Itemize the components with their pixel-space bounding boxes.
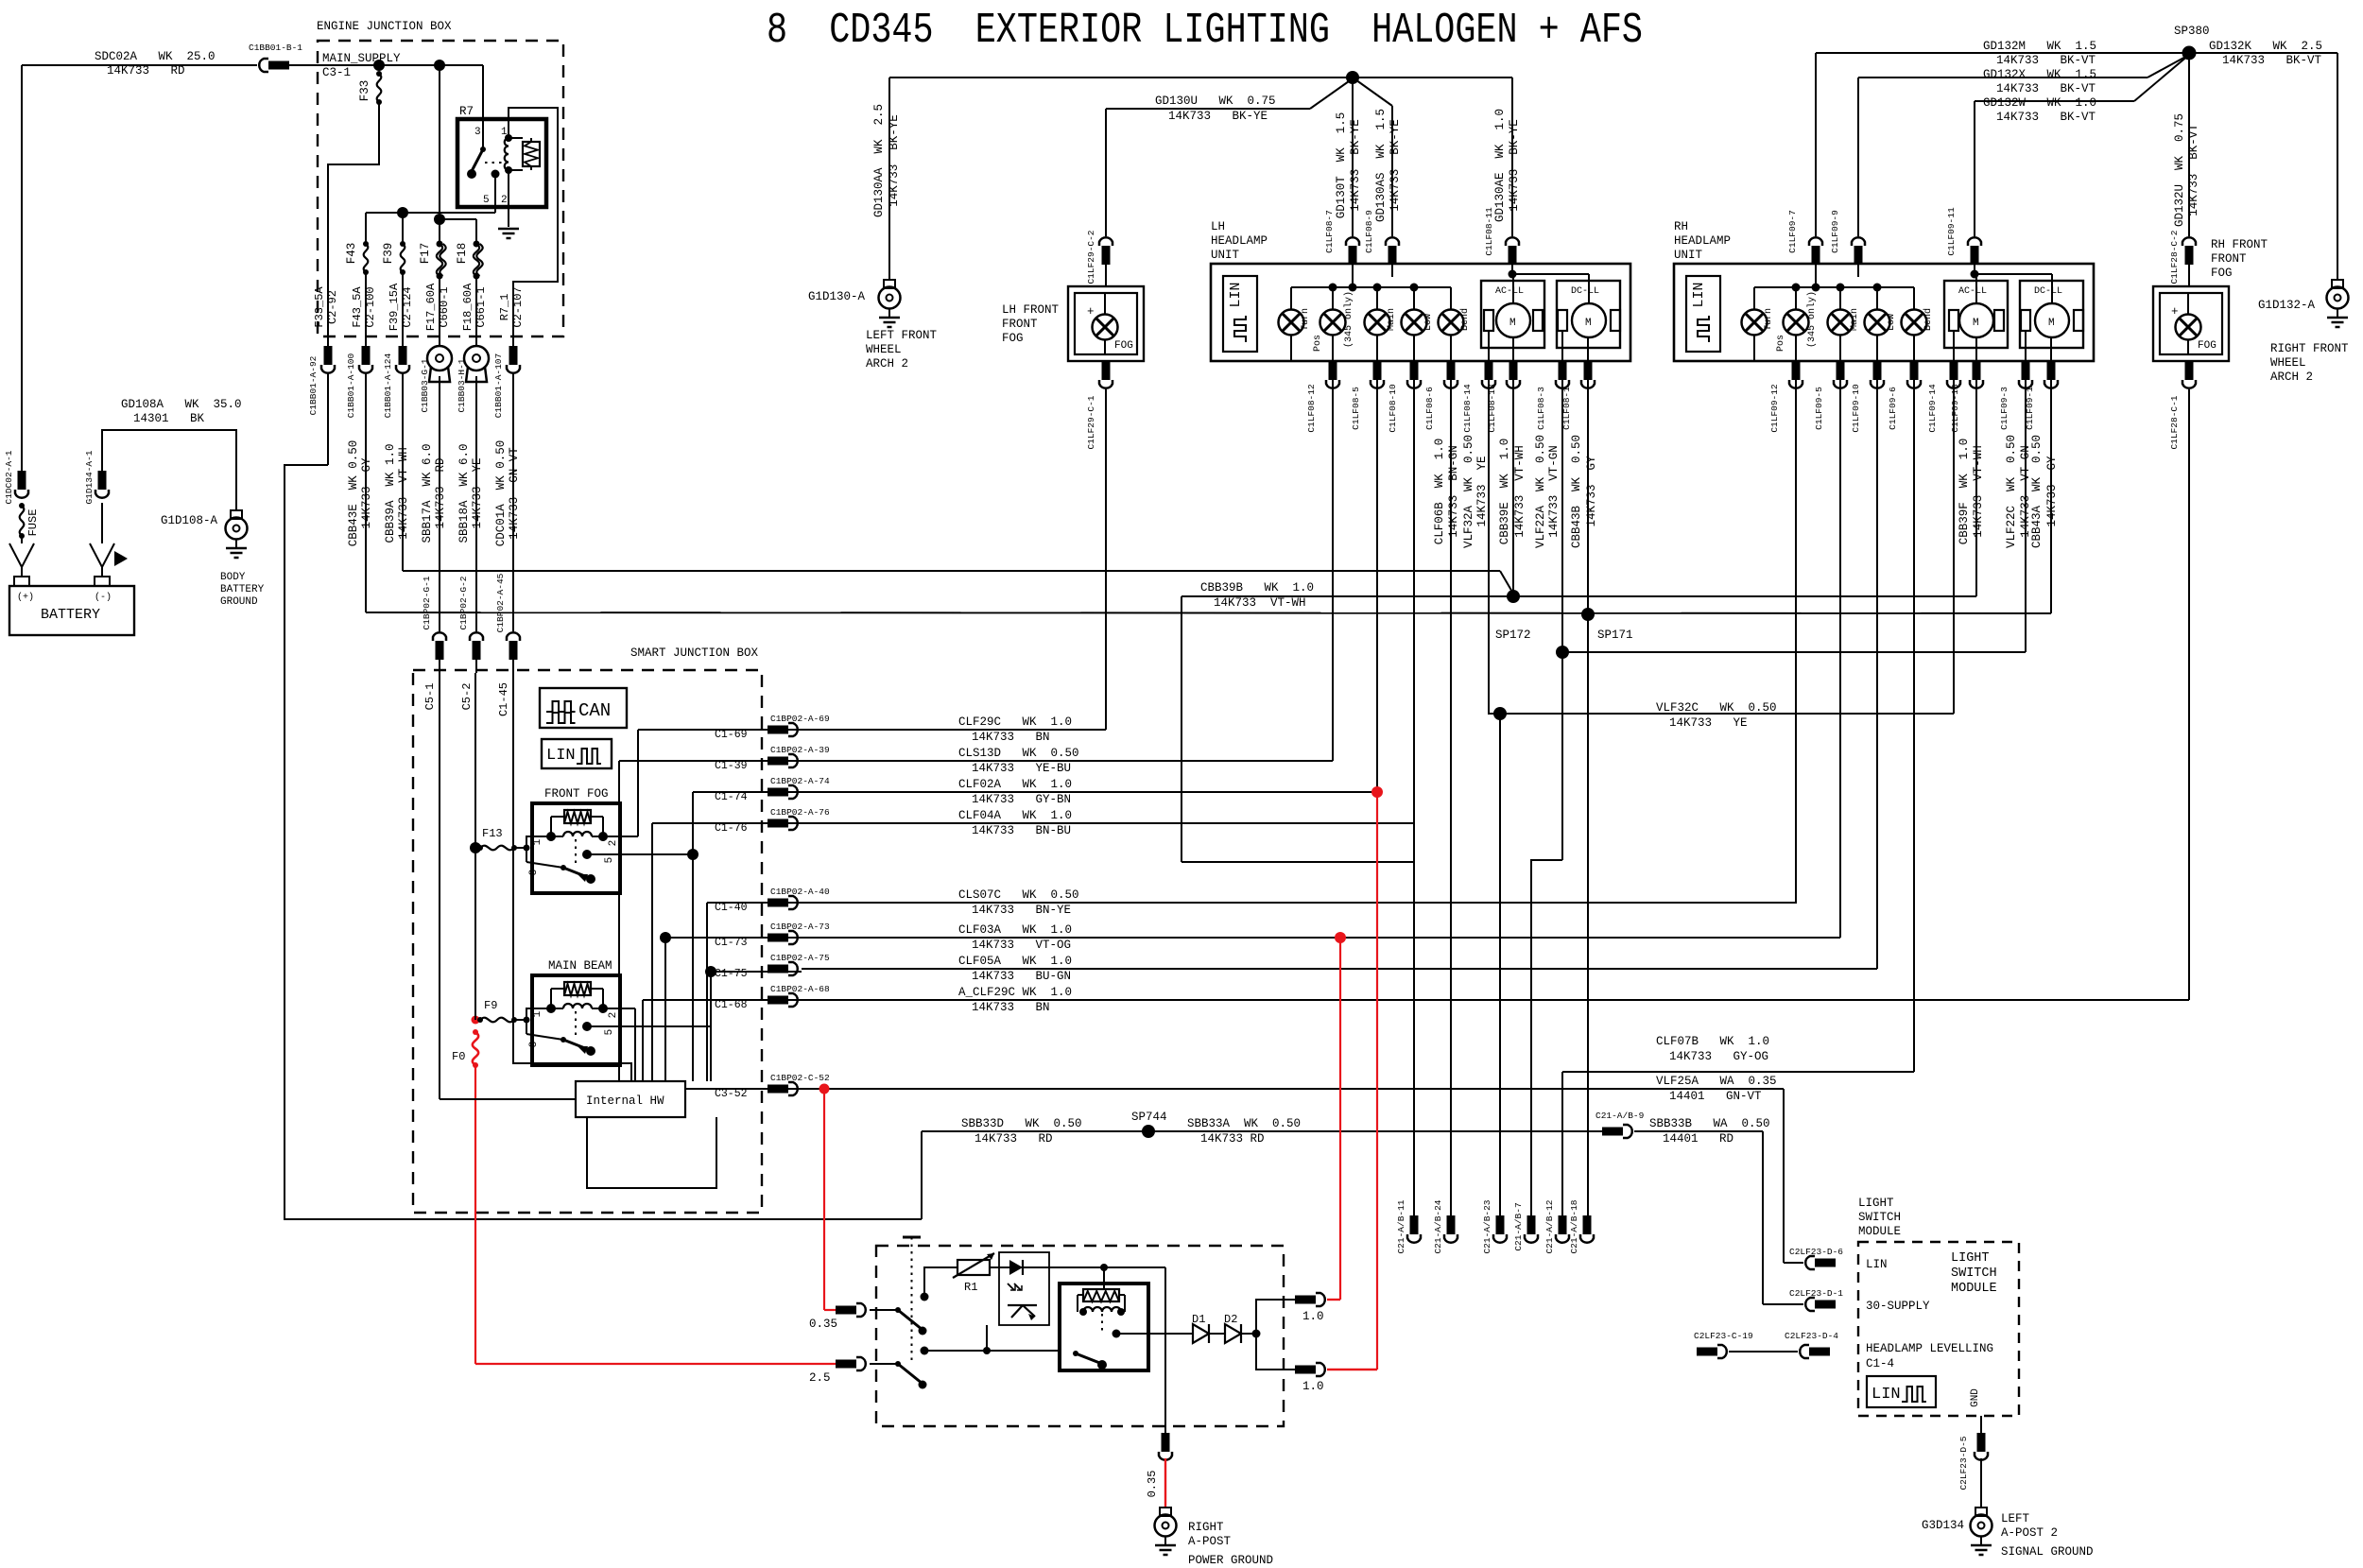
- svg-text:C21-A/B-9: C21-A/B-9: [1595, 1111, 1645, 1121]
- svg-text:RH FRONT: RH FRONT: [2211, 238, 2268, 251]
- svg-text:C2LF23-D-1: C2LF23-D-1: [1789, 1288, 1843, 1299]
- svg-text:C1LF09-3: C1LF09-3: [1999, 387, 2009, 430]
- svg-text:M: M: [2048, 318, 2055, 329]
- svg-text:C1LF09-1: C1LF09-1: [2025, 387, 2035, 430]
- svg-text:14K733 BN: 14K733 BN: [972, 1001, 1050, 1014]
- svg-text:GD132X WK 1.5: GD132X WK 1.5: [1983, 68, 2096, 81]
- svg-text:DC-LL: DC-LL: [2034, 286, 2062, 297]
- svg-text:LIGHT: LIGHT: [1858, 1197, 1894, 1210]
- svg-text:14K733 BN-BU: 14K733 BN-BU: [972, 824, 1071, 837]
- svg-text:F17: F17: [419, 243, 432, 265]
- svg-text:C1BP02-A-45: C1BP02-A-45: [495, 573, 506, 632]
- svg-text:BODY: BODY: [220, 572, 246, 583]
- svg-text:14K733 RD: 14K733 RD: [107, 64, 185, 78]
- svg-text:M: M: [1585, 318, 1592, 329]
- svg-text:VLF22A WK 0.50: VLF22A WK 0.50: [1534, 435, 1547, 548]
- svg-text:1.0: 1.0: [1302, 1380, 1324, 1393]
- svg-text:(-): (-): [95, 592, 112, 603]
- svg-text:SBB18A WK 6.0: SBB18A WK 6.0: [457, 443, 471, 543]
- svg-text:RH: RH: [1674, 220, 1688, 233]
- svg-text:Low: Low: [1887, 314, 1897, 331]
- svg-text:14K733 BK-VT: 14K733 BK-VT: [1996, 54, 2096, 67]
- svg-text:F9: F9: [484, 999, 497, 1012]
- svg-text:AC-LL: AC-LL: [1958, 286, 1987, 297]
- svg-text:LIGHT: LIGHT: [1951, 1251, 1990, 1266]
- svg-text:SWITCH: SWITCH: [1858, 1211, 1901, 1224]
- svg-text:C661-1: C661-1: [474, 286, 488, 327]
- svg-text:C2LF23-D-6: C2LF23-D-6: [1789, 1247, 1843, 1257]
- svg-text:SDC02A WK 25.0: SDC02A WK 25.0: [95, 50, 216, 63]
- svg-text:C660-1: C660-1: [438, 286, 451, 327]
- svg-text:Main: Main: [1386, 308, 1397, 331]
- svg-text:2: 2: [608, 1012, 619, 1019]
- svg-text:C1LF28-C-1: C1LF28-C-1: [2169, 395, 2180, 449]
- svg-text:C1LF08-1: C1LF08-1: [1561, 387, 1572, 430]
- svg-text:14K733 YE: 14K733 YE: [1669, 716, 1748, 730]
- svg-text:C1-40: C1-40: [715, 902, 748, 914]
- svg-text:2.5: 2.5: [809, 1371, 831, 1385]
- svg-text:G1D130-A: G1D130-A: [808, 290, 866, 303]
- svg-text:14K733 VT-WH: 14K733 VT-WH: [1214, 596, 1306, 610]
- svg-text:Bend: Bend: [1459, 308, 1471, 331]
- svg-text:WHEEL: WHEEL: [2270, 356, 2306, 370]
- svg-text:C1-69: C1-69: [715, 729, 748, 741]
- svg-text:C2-100: C2-100: [364, 286, 377, 327]
- svg-text:C1DC02-A-1: C1DC02-A-1: [4, 450, 14, 504]
- svg-text:C1BP02-A-73: C1BP02-A-73: [770, 922, 830, 932]
- svg-text:HEADLAMP: HEADLAMP: [1211, 234, 1268, 248]
- svg-text:A-POST 2: A-POST 2: [2001, 1526, 2058, 1540]
- svg-text:C1BP02-A-76: C1BP02-A-76: [770, 807, 830, 818]
- svg-text:ARCH 2: ARCH 2: [2270, 370, 2313, 384]
- svg-text:Turn: Turn: [1301, 308, 1311, 331]
- svg-text:CLF05A WK 1.0: CLF05A WK 1.0: [958, 955, 1072, 968]
- svg-text:C5-2: C5-2: [460, 683, 474, 711]
- svg-text:C1BB03-H-1: C1BB03-H-1: [457, 358, 467, 412]
- svg-text:(+): (+): [17, 592, 34, 603]
- svg-text:C1LF29-C-2: C1LF29-C-2: [1086, 230, 1096, 284]
- svg-text:M: M: [1973, 318, 1979, 329]
- svg-text:Turn: Turn: [1764, 308, 1774, 331]
- svg-text:G3D134: G3D134: [1922, 1519, 1964, 1532]
- svg-text:14K733 GY: 14K733 GY: [2045, 456, 2059, 527]
- svg-text:C1LF08-14: C1LF08-14: [1462, 384, 1473, 433]
- svg-text:CBB39E WK 1.0: CBB39E WK 1.0: [1498, 439, 1511, 545]
- svg-text:C1BP02-A-40: C1BP02-A-40: [770, 887, 830, 897]
- svg-text:GROUND: GROUND: [220, 596, 258, 608]
- svg-text:LIN: LIN: [546, 747, 576, 765]
- svg-text:MAIN_SUPPLY: MAIN_SUPPLY: [322, 52, 401, 65]
- svg-text:5: 5: [604, 1029, 615, 1036]
- svg-text:CAN: CAN: [578, 700, 611, 721]
- svg-text:C1BP02-G-2: C1BP02-G-2: [458, 576, 469, 629]
- svg-text:RIGHT FRONT: RIGHT FRONT: [2270, 342, 2349, 355]
- svg-text:BATTERY: BATTERY: [41, 607, 100, 623]
- svg-text:CBB43B WK 0.50: CBB43B WK 0.50: [1570, 435, 1583, 548]
- svg-text:1.0: 1.0: [1302, 1310, 1324, 1323]
- svg-text:SP171: SP171: [1597, 629, 1633, 642]
- svg-text:LH: LH: [1211, 220, 1225, 233]
- svg-text:SWITCH: SWITCH: [1951, 1266, 1997, 1281]
- svg-text:GD130AE WK 1.0: GD130AE WK 1.0: [1493, 109, 1507, 222]
- svg-text:14K733 BK-YE: 14K733 BK-YE: [1508, 119, 1521, 212]
- svg-text:CDC01A WK 0.50: CDC01A WK 0.50: [494, 440, 508, 547]
- svg-text:UNIT: UNIT: [1211, 249, 1240, 262]
- svg-text:14301 BK: 14301 BK: [133, 412, 205, 425]
- svg-text:WHEEL: WHEEL: [866, 343, 902, 356]
- svg-text:C1LF08-3: C1LF08-3: [1536, 387, 1546, 430]
- svg-text:LEFT FRONT: LEFT FRONT: [866, 329, 938, 342]
- svg-text:F43: F43: [345, 243, 358, 265]
- svg-text:14K733 VT-GN: 14K733 VT-GN: [1547, 445, 1561, 538]
- svg-text:C21-A/B-12: C21-A/B-12: [1544, 1199, 1555, 1253]
- svg-text:C1LF09-5: C1LF09-5: [1814, 387, 1824, 430]
- svg-text:G1D134-A-1: G1D134-A-1: [84, 450, 95, 504]
- svg-text:F17_60A: F17_60A: [424, 283, 438, 331]
- svg-text:C1-4: C1-4: [1866, 1357, 1894, 1370]
- svg-text:C1LF29-C-1: C1LF29-C-1: [1086, 395, 1096, 449]
- svg-text:C2-124: C2-124: [401, 286, 414, 327]
- svg-text:+: +: [2171, 305, 2179, 319]
- svg-text:14K733 BK-VT: 14K733 BK-VT: [2222, 54, 2322, 67]
- svg-text:FUSE: FUSE: [26, 509, 40, 537]
- svg-text:2: 2: [501, 195, 508, 206]
- svg-text:C1BB01-A-107: C1BB01-A-107: [493, 353, 504, 418]
- svg-text:MAIN BEAM: MAIN BEAM: [548, 959, 612, 973]
- svg-text:C21-A/B-24: C21-A/B-24: [1433, 1199, 1443, 1253]
- svg-text:C1BP02-A-75: C1BP02-A-75: [770, 953, 830, 963]
- svg-text:14K733 GY: 14K733 GY: [1585, 456, 1598, 527]
- svg-text:F18: F18: [456, 243, 469, 265]
- svg-text:14K733 GY-OG: 14K733 GY-OG: [1669, 1050, 1768, 1063]
- svg-text:C1LF09-12: C1LF09-12: [1769, 384, 1780, 433]
- svg-text:14K733 GY-BN: 14K733 GY-BN: [972, 793, 1071, 806]
- svg-text:14K733 BN-GN: 14K733 BN-GN: [1447, 445, 1460, 538]
- svg-text:C1LF08-11: C1LF08-11: [1484, 207, 1494, 256]
- svg-text:BATTERY: BATTERY: [220, 584, 265, 595]
- svg-text:VLF32A WK 0.50: VLF32A WK 0.50: [1462, 435, 1475, 548]
- svg-text:C1LF08-6: C1LF08-6: [1424, 387, 1435, 430]
- svg-text:C5-1: C5-1: [423, 683, 437, 711]
- svg-text:14K733 BN: 14K733 BN: [972, 731, 1050, 744]
- svg-text:SMART JUNCTION BOX: SMART JUNCTION BOX: [630, 646, 759, 660]
- svg-text:14K733 BU-GN: 14K733 BU-GN: [972, 970, 1071, 983]
- svg-text:VLF32C WK 0.50: VLF32C WK 0.50: [1656, 701, 1777, 715]
- svg-text:C1BP02-C-52: C1BP02-C-52: [770, 1073, 830, 1083]
- svg-text:HEADLAMP LEVELLING: HEADLAMP LEVELLING: [1866, 1342, 1993, 1355]
- svg-text:CLF03A WK 1.0: CLF03A WK 1.0: [958, 923, 1072, 937]
- svg-text:C1BB01-A-124: C1BB01-A-124: [383, 353, 393, 419]
- svg-text:C1BB01-A-100: C1BB01-A-100: [346, 353, 356, 419]
- svg-text:GD130AS WK 1.5: GD130AS WK 1.5: [1374, 109, 1388, 222]
- svg-text:C21-A/B-23: C21-A/B-23: [1482, 1199, 1492, 1253]
- svg-text:LIN: LIN: [1228, 282, 1244, 307]
- svg-text:SBB17A WK 6.0: SBB17A WK 6.0: [421, 443, 434, 543]
- svg-text:C1BB01-A-92: C1BB01-A-92: [308, 355, 319, 415]
- svg-text:M: M: [1509, 318, 1516, 329]
- svg-text:14K733 BK-VT: 14K733 BK-VT: [1996, 111, 2096, 124]
- svg-text:FOG: FOG: [1114, 340, 1133, 352]
- svg-text:UNIT: UNIT: [1674, 249, 1703, 262]
- svg-text:3: 3: [528, 1042, 540, 1048]
- svg-text:GD130T WK 1.5: GD130T WK 1.5: [1335, 112, 1348, 219]
- svg-text:C1BP02-A-68: C1BP02-A-68: [770, 984, 830, 994]
- svg-text:SP380: SP380: [2174, 25, 2210, 38]
- svg-text:14K733 BK-YE: 14K733 BK-YE: [888, 114, 901, 207]
- svg-text:14401 RD: 14401 RD: [1663, 1132, 1733, 1146]
- svg-text:C1-39: C1-39: [715, 760, 748, 772]
- svg-text:MODULE: MODULE: [1951, 1282, 1997, 1296]
- svg-text:14K733 YE-BU: 14K733 YE-BU: [972, 762, 1071, 775]
- svg-text:F33_5A: F33_5A: [313, 286, 326, 328]
- svg-text:C1BB01-B-1: C1BB01-B-1: [249, 43, 302, 53]
- svg-text:R1: R1: [964, 1281, 977, 1294]
- svg-text:CLF29C WK 1.0: CLF29C WK 1.0: [958, 715, 1072, 729]
- svg-text:14K733 BK-YE: 14K733 BK-YE: [1388, 119, 1402, 212]
- svg-text:14K733 BK-VT: 14K733 BK-VT: [2187, 124, 2200, 216]
- svg-text:C1LF09-10: C1LF09-10: [1851, 384, 1861, 433]
- svg-text:C1BP02-G-1: C1BP02-G-1: [422, 576, 432, 629]
- svg-text:SBB33B WA 0.50: SBB33B WA 0.50: [1649, 1117, 1770, 1130]
- svg-text:14K733 VT-OG: 14K733 VT-OG: [972, 939, 1071, 952]
- svg-text:F39_15A: F39_15A: [388, 283, 401, 331]
- svg-text:FRONT: FRONT: [2211, 252, 2247, 266]
- svg-text:C2LF23-D-4: C2LF23-D-4: [1785, 1331, 1838, 1341]
- svg-text:LH FRONT: LH FRONT: [1002, 303, 1060, 317]
- svg-text:SP744: SP744: [1131, 1111, 1167, 1124]
- svg-text:GD130U WK 0.75: GD130U WK 0.75: [1155, 95, 1276, 108]
- svg-text:CBB39F WK 1.0: CBB39F WK 1.0: [1958, 439, 1971, 545]
- svg-text:Pos: Pos: [1776, 335, 1786, 352]
- svg-text:C1LF09-7: C1LF09-7: [1787, 210, 1798, 253]
- svg-text:C1-76: C1-76: [715, 822, 748, 835]
- svg-text:C21-A/B-18: C21-A/B-18: [1569, 1199, 1579, 1253]
- svg-text:GD130AA WK 2.5: GD130AA WK 2.5: [872, 104, 886, 217]
- svg-text:8 CD345 EXTERIOR LIGHTING H: 8 CD345 EXTERIOR LIGHTING HALOGEN + AFS: [767, 7, 1643, 55]
- svg-text:GD132W WK 1.0: GD132W WK 1.0: [1983, 96, 2096, 110]
- svg-text:5: 5: [604, 857, 615, 864]
- svg-text:C1BP02-A-69: C1BP02-A-69: [770, 714, 830, 724]
- svg-text:14K733 BK-YE: 14K733 BK-YE: [1168, 110, 1268, 123]
- svg-text:LEFT: LEFT: [2001, 1512, 2030, 1525]
- svg-text:5: 5: [483, 195, 490, 206]
- svg-text:C1LF08-9: C1LF08-9: [1364, 210, 1374, 253]
- svg-text:14K733 VT-WH: 14K733 VT-WH: [1513, 445, 1526, 538]
- svg-text:FRONT: FRONT: [1002, 318, 1038, 331]
- svg-text:1: 1: [532, 1010, 543, 1017]
- svg-text:R7_1: R7_1: [498, 294, 511, 321]
- svg-text:CLS13D WK 0.50: CLS13D WK 0.50: [958, 747, 1079, 760]
- svg-text:SIGNAL GROUND: SIGNAL GROUND: [2001, 1545, 2094, 1559]
- svg-text:2: 2: [608, 840, 619, 847]
- svg-text:CBB39A WK 1.0: CBB39A WK 1.0: [384, 443, 397, 543]
- svg-text:Main: Main: [1849, 308, 1860, 331]
- svg-text:14K733 RD: 14K733 RD: [1200, 1132, 1265, 1146]
- svg-text:FRONT FOG: FRONT FOG: [544, 787, 609, 801]
- svg-text:C1-68: C1-68: [715, 999, 748, 1011]
- svg-text:C1LF28-C-2: C1LF28-C-2: [2169, 230, 2180, 284]
- svg-text:LIN: LIN: [1871, 1386, 1901, 1404]
- svg-text:CBB39B WK 1.0: CBB39B WK 1.0: [1200, 581, 1314, 594]
- svg-text:F0: F0: [452, 1050, 465, 1063]
- svg-text:C1BB03-G-1: C1BB03-G-1: [420, 358, 430, 412]
- svg-text:(345 only): (345 only): [1343, 291, 1354, 348]
- svg-text:C1-45: C1-45: [497, 682, 510, 716]
- svg-text:CBB43A WK 0.50: CBB43A WK 0.50: [2030, 435, 2044, 548]
- svg-text:LIN: LIN: [1866, 1258, 1888, 1271]
- svg-text:C1LF09-6: C1LF09-6: [1888, 387, 1898, 430]
- svg-text:C2-92: C2-92: [326, 290, 339, 324]
- svg-text:C1LF08-12: C1LF08-12: [1306, 384, 1317, 433]
- svg-text:14K733 BN-YE: 14K733 BN-YE: [972, 904, 1071, 917]
- svg-text:C3-52: C3-52: [715, 1088, 748, 1100]
- svg-text:GD132U WK 0.75: GD132U WK 0.75: [2173, 113, 2186, 227]
- svg-text:CLF02A WK 1.0: CLF02A WK 1.0: [958, 778, 1072, 791]
- svg-text:G1D132-A: G1D132-A: [2258, 299, 2316, 312]
- svg-text:VLF25A WA 0.35: VLF25A WA 0.35: [1656, 1075, 1777, 1088]
- svg-text:FOG: FOG: [2211, 267, 2233, 280]
- svg-text:FOG: FOG: [1002, 332, 1024, 345]
- svg-text:GND: GND: [1970, 1388, 1981, 1407]
- svg-text:CLF06B WK 1.0: CLF06B WK 1.0: [1433, 439, 1446, 545]
- svg-text:SP172: SP172: [1495, 629, 1531, 642]
- svg-text:C1BP02-A-39: C1BP02-A-39: [770, 745, 830, 755]
- svg-text:SBB33D WK 0.50: SBB33D WK 0.50: [961, 1117, 1082, 1130]
- svg-text:0.35: 0.35: [809, 1318, 837, 1331]
- svg-text:C2-107: C2-107: [511, 286, 525, 327]
- svg-text:C1LF09-13: C1LF09-13: [1950, 384, 1960, 433]
- svg-text:3: 3: [474, 127, 481, 138]
- svg-text:GD108A WK 35.0: GD108A WK 35.0: [121, 398, 242, 411]
- svg-text:C21-A/B-7: C21-A/B-7: [1513, 1202, 1524, 1250]
- svg-text:1: 1: [532, 838, 543, 845]
- svg-text:POWER GROUND: POWER GROUND: [1188, 1554, 1273, 1567]
- svg-text:A-POST: A-POST: [1188, 1535, 1232, 1548]
- svg-text:CLF04A WK 1.0: CLF04A WK 1.0: [958, 809, 1072, 822]
- svg-text:AC-LL: AC-LL: [1495, 286, 1524, 297]
- svg-text:ARCH 2: ARCH 2: [866, 357, 908, 370]
- svg-text:FOG: FOG: [2198, 340, 2216, 352]
- svg-text:CLF07B WK 1.0: CLF07B WK 1.0: [1656, 1035, 1769, 1048]
- svg-text:R7: R7: [459, 105, 474, 118]
- svg-text:Internal HW: Internal HW: [586, 1094, 664, 1108]
- svg-text:C1-73: C1-73: [715, 937, 748, 949]
- svg-text:3: 3: [528, 870, 540, 876]
- svg-text:CLS07C WK 0.50: CLS07C WK 0.50: [958, 888, 1079, 902]
- svg-text:RIGHT: RIGHT: [1188, 1521, 1224, 1534]
- svg-text:GD132M WK 1.5: GD132M WK 1.5: [1983, 40, 2096, 53]
- svg-text:G1D108-A: G1D108-A: [161, 514, 218, 527]
- svg-text:14K733 YE: 14K733 YE: [1475, 456, 1489, 526]
- svg-text:C3-1: C3-1: [322, 66, 351, 79]
- svg-text:14401 GN-VT: 14401 GN-VT: [1669, 1090, 1762, 1103]
- svg-text:CBB43E WK 0.50: CBB43E WK 0.50: [347, 440, 360, 547]
- svg-text:14K733 BK-VT: 14K733 BK-VT: [1996, 82, 2096, 95]
- svg-text:0.35: 0.35: [1146, 1471, 1159, 1498]
- svg-text:Bend: Bend: [1923, 308, 1934, 331]
- svg-text:C2LF23-C-19: C2LF23-C-19: [1694, 1331, 1753, 1341]
- svg-text:LIN: LIN: [1691, 282, 1707, 307]
- svg-text:DC-LL: DC-LL: [1571, 286, 1599, 297]
- svg-text:30-SUPPLY: 30-SUPPLY: [1866, 1300, 1930, 1313]
- svg-text:F18_60A: F18_60A: [461, 283, 474, 331]
- svg-text:F39: F39: [382, 243, 395, 265]
- svg-text:14K733 VT-WH: 14K733 VT-WH: [1972, 445, 1985, 538]
- svg-text:F43_5A: F43_5A: [351, 286, 364, 328]
- svg-text:C21-A/B-11: C21-A/B-11: [1396, 1199, 1406, 1253]
- svg-text:GD132K WK 2.5: GD132K WK 2.5: [2209, 40, 2322, 53]
- svg-text:C1LF08-5: C1LF08-5: [1351, 387, 1361, 430]
- svg-text:C2LF23-D-5: C2LF23-D-5: [1958, 1436, 1969, 1490]
- svg-text:+: +: [1087, 305, 1095, 319]
- svg-text:F33: F33: [358, 80, 371, 102]
- svg-text:C1LF08-13: C1LF08-13: [1487, 384, 1497, 433]
- svg-text:C1BP02-A-74: C1BP02-A-74: [770, 776, 830, 786]
- svg-text:C1LF08-10: C1LF08-10: [1388, 384, 1398, 433]
- svg-text:F13: F13: [482, 827, 503, 840]
- svg-text:C1LF09-14: C1LF09-14: [1927, 384, 1938, 433]
- svg-text:C1LF09-11: C1LF09-11: [1946, 207, 1957, 256]
- svg-text:(345 only): (345 only): [1806, 291, 1818, 348]
- svg-text:Low: Low: [1423, 314, 1434, 331]
- svg-text:C1-74: C1-74: [715, 791, 748, 803]
- svg-text:A_CLF29C WK 1.0: A_CLF29C WK 1.0: [958, 986, 1072, 999]
- svg-text:ENGINE JUNCTION BOX: ENGINE JUNCTION BOX: [317, 20, 452, 33]
- svg-text:14K733 RD: 14K733 RD: [975, 1132, 1053, 1146]
- svg-text:C1LF09-9: C1LF09-9: [1830, 210, 1840, 253]
- svg-text:Pos: Pos: [1313, 335, 1323, 352]
- svg-text:C1LF08-7: C1LF08-7: [1324, 210, 1335, 253]
- svg-text:MODULE: MODULE: [1858, 1225, 1901, 1238]
- svg-text:14K733 BK-YE: 14K733 BK-YE: [1349, 119, 1362, 212]
- svg-text:HEADLAMP: HEADLAMP: [1674, 234, 1731, 248]
- svg-text:C1-75: C1-75: [715, 968, 748, 980]
- svg-text:SBB33A WK 0.50: SBB33A WK 0.50: [1187, 1117, 1301, 1130]
- svg-text:VLF22C WK 0.50: VLF22C WK 0.50: [2005, 435, 2018, 548]
